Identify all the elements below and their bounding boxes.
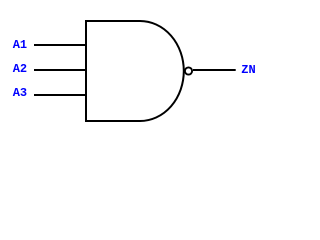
wire input A2 [34, 69, 86, 71]
wire output ZN [193, 69, 236, 71]
nand gate U1 body [86, 21, 184, 121]
svg-text:ZN: ZN [241, 63, 255, 77]
svg-text:A2: A2 [13, 62, 27, 76]
output inversion bubble [185, 67, 192, 74]
svg-text:A1: A1 [13, 38, 27, 52]
wire input A1 [34, 44, 86, 46]
wire input A3 [34, 94, 86, 96]
svg-text:A3: A3 [13, 86, 27, 100]
